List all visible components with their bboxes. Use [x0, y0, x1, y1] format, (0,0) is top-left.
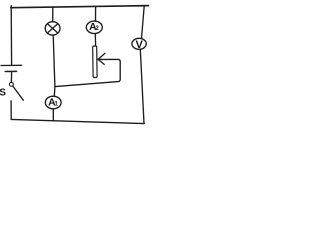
rheostat wiper arrow barb lower [98, 59, 104, 64]
wire top [11, 6, 149, 8]
wire A2 top [95, 7, 97, 22]
wire A1 to bottom [52, 109, 54, 121]
battery B1 long plate [1, 64, 22, 66]
rheostat wiper wire [55, 59, 120, 86]
wire A2 to rheostat [94, 34, 96, 47]
wire battery to switch [10, 72, 12, 82]
ammeter A2 [86, 21, 102, 33]
svg-text:2: 2 [95, 25, 99, 32]
battery B1 short plate [5, 70, 16, 72]
switch S blade [13, 86, 23, 100]
voltmeter V1 [132, 38, 146, 49]
wire switch to bottom [10, 101, 12, 120]
lamp L1 [45, 22, 60, 35]
svg-text:1: 1 [54, 100, 58, 107]
rheostat wiper arrow barb upper [98, 53, 105, 59]
svg-text:S: S [0, 88, 6, 99]
rheostat RH body [93, 46, 97, 78]
wire lamp to junction [53, 35, 55, 96]
wire left upper [10, 6, 12, 65]
switch S pivot [9, 82, 13, 86]
svg-text:V: V [136, 39, 144, 51]
wire right lower [140, 49, 144, 123]
lamp L1 cross [47, 24, 57, 33]
wire lamp top [52, 7, 54, 21]
wire bottom [11, 119, 144, 123]
wire right upper [142, 6, 145, 39]
ammeter A1 [45, 96, 61, 109]
